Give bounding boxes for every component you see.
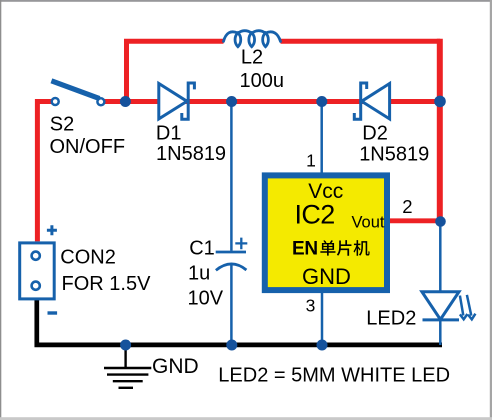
wire: black negative rail from CON2 minus to LED cathode xyxy=(37,299,442,345)
svg-text:LED2 = 5MM WHITE LED: LED2 = 5MM WHITE LED xyxy=(218,365,450,387)
wire: IC2 pin 1 Vcc wire xyxy=(320,102,323,176)
LED2 xyxy=(422,292,476,320)
svg-text:L2: L2 xyxy=(241,47,263,69)
svg-text:1N5819: 1N5819 xyxy=(156,143,226,165)
ground symbol xyxy=(104,345,151,388)
IC2 EN MCU label xyxy=(292,239,370,260)
diode D1 1N5819 xyxy=(159,83,195,119)
capacitor C1 xyxy=(216,238,248,271)
wire: IC2 pin 3 GND wire xyxy=(321,291,324,345)
wire: C1 top blue wire xyxy=(230,102,233,251)
wire: red top loop from node A up over L2 to right rail down to Vout node xyxy=(127,39,441,221)
wire: red Vout pin 2 wire xyxy=(386,218,441,223)
svg-text:2: 2 xyxy=(402,196,412,217)
svg-text:IC2: IC2 xyxy=(295,200,335,230)
svg-text:FOR 1.5V: FOR 1.5V xyxy=(62,273,152,295)
diode D2 1N5819 xyxy=(354,83,389,119)
svg-text:1N5819: 1N5819 xyxy=(359,143,429,165)
IC2 MCU block xyxy=(265,175,387,290)
svg-text:EN: EN xyxy=(292,239,318,260)
wire: red main top rail from S2 right terminal to right rail xyxy=(101,99,440,104)
svg-text:CON2: CON2 xyxy=(60,247,116,269)
svg-text:S2: S2 xyxy=(50,114,74,136)
node junction: right rail top xyxy=(434,96,446,108)
svg-text:1u: 1u xyxy=(188,263,210,285)
wire: red battery + branch from S2 left terminal to CON2 xyxy=(37,102,55,242)
node junction: C1 top xyxy=(226,96,237,107)
node A junction: S2/loop xyxy=(120,96,131,107)
node junction: Vcc pin xyxy=(316,96,327,107)
svg-text:GND: GND xyxy=(152,355,199,378)
switch S2 xyxy=(51,81,104,106)
node junction: C1 bottom xyxy=(226,340,237,351)
svg-text:Vout: Vout xyxy=(351,214,384,232)
svg-text:D1: D1 xyxy=(156,123,182,145)
svg-text:D2: D2 xyxy=(362,123,388,145)
wire: LED2 anode wire xyxy=(439,221,442,292)
node junction: ground rail GND xyxy=(120,340,131,351)
connector CON2 xyxy=(20,225,57,313)
svg-text:1: 1 xyxy=(306,151,316,171)
svg-text:10V: 10V xyxy=(188,288,224,310)
svg-text:LED2: LED2 xyxy=(366,308,416,330)
wire: C1 bottom blue wire xyxy=(230,264,233,345)
svg-text:100u: 100u xyxy=(240,70,285,92)
svg-text:3: 3 xyxy=(306,296,316,316)
wire: LED2 cathode wire xyxy=(439,320,442,345)
svg-text:GND: GND xyxy=(302,264,351,289)
node junction: IC2 GND pin xyxy=(317,340,328,351)
inductor L2 xyxy=(224,31,281,47)
svg-text:ON/OFF: ON/OFF xyxy=(50,136,126,158)
node junction: Vout/LED xyxy=(435,216,446,227)
svg-text:C1: C1 xyxy=(189,238,215,260)
